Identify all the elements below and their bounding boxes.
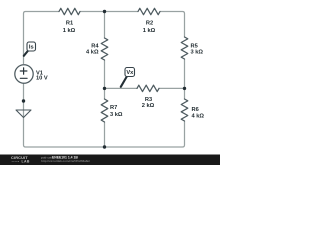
wire middle branch below R7 (104, 122, 106, 147)
node junction top middle (103, 10, 106, 13)
svg-text:10 V: 10 V (36, 76, 48, 82)
svg-text:http://circuitlab.com/c/w5Pn26: http://circuitlab.com/c/w5Pn266a8o/ (41, 159, 90, 163)
svg-text:⁓⁓▪: ⁓⁓▪ (12, 160, 20, 164)
svg-text:4 kΩ: 4 kΩ (192, 113, 205, 119)
node junction ground (22, 99, 25, 102)
flag Vx pointer (121, 76, 128, 87)
wire top rail left segment (24, 12, 60, 64)
voltage source V1 (15, 65, 33, 83)
resistor R2 (138, 8, 160, 14)
svg-text:3 kΩ: 3 kΩ (191, 50, 204, 56)
wire middle rail left of R3 (105, 87, 138, 89)
svg-text:R7: R7 (110, 105, 117, 111)
node junction bottom middle (103, 145, 106, 148)
flag Is pointer (24, 50, 29, 56)
flag Is box (27, 42, 36, 51)
resistor R3 (137, 85, 159, 91)
footer bar (0, 155, 220, 166)
resistor R7 (101, 99, 108, 122)
node junction middle right (183, 87, 186, 90)
node junction middle left (103, 87, 106, 90)
svg-text:4 kΩ: 4 kΩ (86, 50, 99, 56)
svg-text:R6: R6 (192, 107, 199, 113)
svg-text:2 kΩ: 2 kΩ (142, 103, 155, 109)
svg-text:LAB: LAB (22, 160, 30, 164)
svg-text:R2: R2 (146, 21, 153, 27)
resistor R5 (181, 37, 188, 59)
wire middle branch between R4 and R7 (104, 60, 106, 99)
wire right rail below R6 + bottom rail (24, 84, 185, 147)
wire middle rail right of R3 (159, 87, 185, 89)
resistor R1 (59, 8, 80, 14)
svg-text:3 kΩ: 3 kΩ (110, 112, 123, 118)
resistor R4 (101, 38, 108, 60)
svg-text:Is: Is (29, 44, 34, 50)
wire middle branch top (104, 12, 106, 39)
svg-text:Vx: Vx (126, 70, 134, 76)
svg-text:1 kΩ: 1 kΩ (63, 28, 76, 34)
svg-text:R1: R1 (66, 21, 73, 27)
svg-text:1 kΩ: 1 kΩ (143, 28, 156, 34)
resistor R6 (181, 99, 188, 121)
wire top rail right segment + right rail top (160, 12, 185, 38)
flag Vx box (125, 68, 135, 77)
wire right rail between R5 and R6 (184, 59, 186, 99)
ground (16, 110, 31, 118)
wire top rail middle segment (80, 11, 138, 13)
